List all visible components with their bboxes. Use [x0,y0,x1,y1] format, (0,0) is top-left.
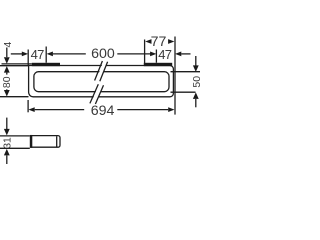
ext line right bracket center [155,50,157,63]
arrow right 77 [168,39,174,44]
80 dim down arrow [4,90,10,97]
ext line inner bottom (right) [171,91,196,93]
break slash bottom 2 [95,85,103,104]
ext line bottom-view top [0,135,30,137]
31 dim top line [6,118,8,130]
left wall plate (thick segment) [32,63,60,66]
80 dim line stubs [6,73,8,75]
svg-text:47: 47 [158,47,172,62]
arrow left 77 [145,39,151,44]
694 dim line left [35,109,84,111]
svg-text:31: 31 [3,137,14,149]
ext line bar bottom (left) [0,96,29,98]
50 bottom vertical line [195,99,197,107]
break slash top 1 [95,61,103,81]
towel bar outer outline (front view) [29,66,174,97]
ext line left bar end (above bar) [27,50,29,66]
50 up arrow [193,92,199,99]
dim row 47/600/47 : left tail [11,53,22,55]
ext line left bracket center [45,47,47,63]
694 dim: left ext line [27,100,29,112]
694 left arrow [28,107,34,112]
600 dim line left part [53,53,86,55]
ext line plate top (left) [2,63,32,65]
break gap mask top [95,62,107,82]
arrow right at left bar end [22,52,28,57]
ext line inner top (right) [171,71,201,73]
ext line bar top (left) [0,65,29,67]
4 dim vertical line [6,48,8,58]
arrow left at left bracket center (shared 47/600) [47,52,53,57]
svg-text:80: 80 [2,76,13,88]
svg-text:694: 694 [91,103,115,119]
arrow right at right bracket center (shared 600/47) [150,52,156,57]
arrow left at right bar end (47 right) [175,52,181,57]
47 right tail [181,53,190,55]
50 down arrow [193,65,199,72]
ext line right bar end (long) [174,37,176,115]
break slash top 2 [100,62,108,82]
bar inner profile (rounded rect) [34,72,169,92]
50 dim: top vertical line [195,56,197,66]
svg-text:600: 600 [91,46,115,62]
31 bottom line [6,155,8,164]
bottom view inner line [56,136,58,146]
svg-text:47: 47 [31,47,45,62]
bottom view rect outline [31,136,60,148]
694 right arrow [168,107,174,112]
break gap mask bottom [91,85,103,105]
80 dim up arrow [4,66,10,73]
break slash bottom 1 [90,84,98,103]
ext line 77 left [144,40,146,66]
694 dim line right [117,109,168,111]
svg-text:4: 4 [3,41,14,47]
600 dim line right part [117,53,150,55]
4 dim down arrow [4,57,10,64]
svg-text:50: 50 [192,76,200,88]
31 up arrow [4,149,10,156]
ext line bottom-view bottom [0,147,30,149]
right wall plate (thick segment) [144,63,172,66]
bottom view thick left edge [30,135,33,148]
31 down arrow [4,129,10,136]
